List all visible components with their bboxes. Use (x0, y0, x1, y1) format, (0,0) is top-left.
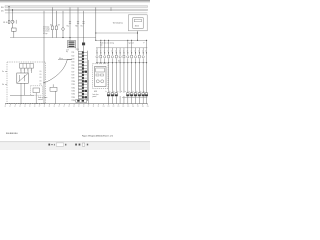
junction (127, 40, 128, 41)
wire (69, 38, 71, 41)
svg-text:0.5: 0.5 (40, 80, 42, 82)
wire (119, 58, 121, 92)
connector terminal (138, 93, 141, 96)
wire curve to ECU (44, 60, 72, 83)
junction (100, 52, 101, 53)
svg-text:0.5: 0.5 (40, 83, 42, 85)
wire (69, 7, 71, 37)
component ECU connector T121 (72, 49, 88, 102)
connector terminal (127, 93, 130, 96)
junction (120, 52, 121, 53)
svg-text:0.5: 0.5 (40, 74, 42, 76)
wire (104, 48, 106, 55)
switch contact (11, 20, 14, 23)
wire (111, 96, 113, 104)
wire (24, 68, 26, 73)
wire (20, 83, 22, 95)
injector valve (111, 56, 113, 58)
wire (108, 40, 110, 48)
junction (135, 52, 136, 53)
resistor element (138, 55, 140, 58)
junction (127, 62, 128, 63)
resistor element (108, 55, 110, 58)
svg-text:0.5: 0.5 (40, 71, 42, 73)
connector terminal (111, 93, 114, 96)
wire right bus upper (96, 32, 138, 34)
wire (145, 48, 147, 55)
wire (115, 48, 117, 55)
svg-text:T2/3: T2/3 (72, 59, 75, 61)
wire (111, 48, 113, 55)
wire (13, 31, 15, 37)
wire (110, 7, 112, 10)
diode V1 (82, 43, 85, 46)
wire (115, 58, 117, 92)
junction (146, 40, 147, 41)
wire (123, 58, 125, 92)
wire (127, 48, 129, 55)
connector T2 (12, 28, 17, 31)
svg-text:T2/10: T2/10 (72, 81, 76, 83)
svg-text:T2/11: T2/11 (72, 84, 76, 86)
junction (97, 62, 98, 63)
svg-text:300 868 010: 300 868 010 (6, 133, 18, 135)
svg-text:107: 107 (137, 106, 139, 108)
terminal ticks (77, 21, 79, 23)
fuse S3 (55, 24, 60, 29)
wire (127, 58, 129, 92)
junction (131, 40, 132, 41)
junction (123, 52, 124, 53)
svg-text:102: 102 (112, 106, 114, 108)
junction (143, 62, 144, 63)
connector terminal (115, 93, 118, 96)
svg-text:S3: S3 (58, 24, 60, 26)
svg-text:J 17: J 17 (66, 49, 69, 51)
wire (15, 20, 17, 24)
svg-text:T1b: T1b (75, 26, 78, 28)
wire (62, 30, 64, 37)
svg-text:100: 100 (103, 106, 105, 108)
wire (137, 31, 139, 41)
svg-text:103: 103 (117, 106, 119, 108)
node track scale (5, 104, 150, 109)
wire (62, 11, 64, 28)
junction (8, 6, 9, 7)
svg-text:S1 10: S1 10 (3, 22, 7, 24)
wire terminal strip bottom (122, 97, 147, 99)
wire (131, 48, 133, 55)
wire (83, 45, 85, 51)
wire (104, 40, 106, 48)
svg-text:106: 106 (132, 106, 134, 108)
svg-text:T2/5: T2/5 (72, 65, 75, 67)
node label (93, 93, 99, 98)
connector block J17 (66, 41, 76, 54)
wire (138, 48, 140, 55)
svg-text:S2: S2 (50, 24, 52, 26)
node label fuel pump relay (38, 97, 48, 101)
wire (123, 96, 125, 104)
connector terminal (145, 93, 148, 96)
connector terminal (142, 93, 145, 96)
wire (145, 96, 147, 104)
junction (143, 52, 144, 53)
junction (112, 62, 113, 63)
wire (142, 58, 144, 92)
svg-text:Ign coil: Ign coil (129, 42, 135, 44)
svg-text:3a: 3a (2, 71, 4, 73)
relay J2 (17, 73, 29, 83)
junction (43, 82, 44, 83)
svg-text:T1c: T1c (81, 26, 84, 28)
svg-text:T2/14: T2/14 (72, 94, 76, 96)
wire (145, 40, 147, 48)
junction (131, 52, 132, 53)
svg-text:108: 108 (142, 106, 144, 108)
wire (12, 23, 14, 28)
wire (77, 7, 79, 37)
terminal ticks (69, 21, 71, 23)
svg-text:30/15: 30/15 (135, 26, 139, 28)
wire main bus left (10, 37, 96, 39)
wire (31, 68, 33, 73)
wire (108, 96, 110, 104)
wire (35, 93, 37, 104)
junction (137, 32, 138, 33)
svg-text:T2/4: T2/4 (72, 62, 75, 64)
connector terminal (130, 93, 133, 96)
junction (116, 62, 117, 63)
svg-text:T1a: T1a (67, 26, 70, 28)
junction (127, 52, 128, 53)
wire (20, 68, 22, 73)
wire (127, 40, 129, 48)
svg-text:T2/16: T2/16 (72, 100, 76, 102)
junction (100, 40, 101, 41)
wire (58, 59, 72, 61)
wire (100, 40, 102, 48)
svg-text:F: F (144, 42, 145, 44)
junction (146, 52, 147, 53)
wire (77, 38, 79, 51)
wire (119, 96, 121, 104)
wire right bus 2 (96, 47, 147, 49)
junction (139, 52, 140, 53)
svg-text:101: 101 (107, 106, 109, 108)
svg-text:T2/15: T2/15 (72, 97, 76, 99)
junction (139, 62, 140, 63)
wire (135, 58, 137, 92)
resistor element (100, 55, 102, 58)
wire (108, 58, 110, 92)
junction (104, 40, 105, 41)
wire (5, 83, 7, 85)
svg-text:T2/12: T2/12 (72, 87, 76, 89)
wire (108, 48, 110, 55)
junction (104, 52, 105, 53)
junction (62, 37, 63, 38)
wire right bus lower (96, 39, 148, 41)
injector valve (104, 56, 106, 58)
wire (8, 7, 10, 21)
component dashed cluster box (93, 64, 109, 89)
node wire code labels (43, 27, 50, 35)
wire (131, 40, 133, 48)
terminal ticks (82, 21, 84, 23)
wire (5, 70, 7, 72)
svg-text:105: 105 (127, 106, 129, 108)
injector valve (119, 56, 121, 58)
wire (119, 48, 121, 55)
wire (95, 7, 97, 40)
junction (123, 62, 124, 63)
svg-text:109: 109 (147, 106, 149, 108)
wire (138, 58, 140, 92)
wire (96, 58, 98, 63)
svg-text:92: 92 (63, 106, 65, 108)
wire (52, 84, 54, 87)
wire (20, 95, 22, 103)
wire (131, 96, 133, 104)
wire (12, 10, 14, 20)
node X rail (5, 12, 148, 14)
wire (138, 96, 140, 104)
injector valve (96, 56, 98, 58)
svg-text:T2/1: T2/1 (72, 52, 75, 54)
junction (131, 62, 132, 63)
wire (27, 68, 29, 73)
wire (55, 30, 57, 38)
wire (96, 48, 98, 55)
wire (115, 96, 117, 104)
junction (69, 37, 70, 38)
node pin labels (20, 69, 32, 71)
svg-text:T2/13: T2/13 (72, 91, 76, 93)
wire (142, 48, 144, 55)
injector valve (142, 56, 144, 58)
junction (97, 52, 98, 53)
wire (88, 60, 90, 104)
svg-text:104: 104 (122, 106, 124, 108)
svg-text:xxx: xxx (100, 45, 103, 47)
svg-text:T2/7: T2/7 (72, 71, 75, 73)
wire (51, 30, 53, 38)
svg-text:Terminal ba: Terminal ba (113, 22, 124, 24)
junction (108, 40, 109, 41)
wire (83, 11, 85, 43)
wire right junction row (96, 62, 147, 64)
svg-text:3b: 3b (2, 84, 4, 86)
resistor element (123, 55, 125, 58)
component F3 (50, 87, 57, 91)
junction (108, 62, 109, 63)
wire (10, 94, 34, 96)
connector strip (20, 64, 34, 69)
junction (135, 62, 136, 63)
wire (127, 96, 129, 104)
component inset box (128, 15, 147, 31)
fuse S1 (3, 20, 10, 24)
svg-text:82: 82 (14, 106, 16, 108)
svg-text:0.5 gn: 0.5 gn (43, 33, 48, 35)
svg-text:T2/8: T2/8 (72, 75, 75, 77)
resistor element (131, 55, 133, 58)
wire (100, 48, 102, 55)
wire (145, 55, 147, 93)
component cluster inner (95, 67, 107, 87)
junction (108, 52, 109, 53)
wire (100, 58, 102, 63)
connector terminal (134, 93, 137, 96)
component dashed enclosure ignition switch (7, 62, 46, 103)
svg-text:G28: G28 (94, 91, 97, 93)
junction (146, 62, 147, 63)
sensor G1 (62, 28, 65, 31)
component dashed sub box (31, 86, 43, 95)
injector valve (127, 56, 129, 58)
node 15 rail (1, 9, 148, 12)
svg-text:T121: T121 (76, 49, 80, 51)
svg-text:T2/6: T2/6 (72, 68, 75, 70)
svg-text:0.5: 0.5 (40, 77, 42, 79)
junction (12, 9, 13, 10)
wire (104, 58, 106, 63)
wire (123, 48, 125, 55)
junction (104, 62, 105, 63)
wire (55, 11, 57, 26)
junction (120, 62, 121, 63)
fuse F1 (33, 88, 39, 93)
wire (142, 96, 144, 104)
wire (111, 58, 113, 92)
wire (135, 96, 137, 104)
junction (112, 52, 113, 53)
injector valve (134, 56, 136, 58)
svg-text:T2/2: T2/2 (72, 55, 75, 57)
node wire code labels (40, 71, 42, 85)
wire (43, 11, 45, 104)
wire (55, 91, 57, 103)
svg-text:T2/9: T2/9 (72, 78, 75, 80)
wire (131, 58, 133, 92)
svg-text:Figure 3 Engine (M2000) Sheet: Figure 3 Engine (M2000) Sheet 1 of 2 (82, 134, 113, 137)
junction (116, 52, 117, 53)
wire (24, 83, 26, 95)
wire (135, 48, 137, 55)
connector terminal (107, 93, 110, 96)
svg-text:87: 87 (39, 106, 41, 108)
svg-text:97: 97 (88, 106, 90, 108)
wire (51, 7, 53, 26)
junction (100, 62, 101, 63)
node 30 rail (1, 6, 148, 9)
junction (95, 32, 96, 33)
node right field labels (100, 41, 145, 46)
resistor element (115, 55, 117, 58)
svg-text:Fuel rly Sens: Fuel rly Sens (38, 97, 48, 99)
fuse S2 (50, 24, 53, 29)
